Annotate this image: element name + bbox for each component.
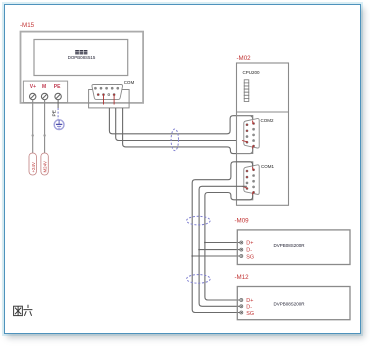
- cable marker (COM1 cable upper): [187, 216, 211, 225]
- svg-text:+24V: +24V: [31, 162, 36, 172]
- M09 terminal D+: [240, 241, 243, 244]
- svg-text:SG: SG: [246, 254, 254, 260]
- branch wire to M09 D-: [199, 249, 239, 251]
- svg-text:M24V: M24V: [43, 161, 48, 173]
- svg-text:-M09: -M09: [235, 218, 250, 225]
- cable marker (HMI-PLC cable): [171, 129, 178, 151]
- red wire stub pin4: [113, 96, 115, 105]
- svg-text:DOPB08S515: DOPB08S515: [68, 55, 96, 60]
- svg-text:PE: PE: [52, 110, 58, 116]
- COM2 red stub top: [252, 121, 254, 125]
- COM2 pins left col: [246, 124, 248, 143]
- wire A: HMI COM to PLC COM2 (upper): [109, 108, 252, 134]
- wire tag +24V: [29, 153, 36, 175]
- wire M down: [44, 100, 46, 153]
- wire V+ down: [32, 100, 34, 153]
- COM1 pins left col: [246, 170, 248, 189]
- svg-text:DVPB08S200R: DVPB08S200R: [274, 243, 306, 248]
- COM1 DB9 connector: [244, 165, 259, 195]
- COM2 DB9 connector: [244, 119, 259, 149]
- COM1 red wire B end: [242, 186, 247, 188]
- svg-text:M: M: [42, 84, 46, 90]
- junction SG: [191, 255, 193, 257]
- COM1 pin center dots: [247, 171, 255, 189]
- M12 terminal SG: [240, 311, 243, 314]
- DB9 pin center dots top: [95, 87, 118, 90]
- junction mark on M wire: [43, 134, 45, 136]
- caption 图六 (drawn glyphs): [14, 305, 33, 316]
- HMI U(-M15) outer box: [21, 32, 144, 103]
- svg-text:COM: COM: [124, 80, 135, 85]
- HMI title 触摸屏 (drawn glyph blocks): [75, 50, 87, 54]
- HMI display rectangle: [34, 40, 128, 76]
- svg-text:COM1: COM1: [261, 164, 274, 169]
- screw terminal M: [41, 93, 47, 99]
- M09 terminal SG: [240, 255, 243, 258]
- M12 terminal D-: [240, 305, 243, 308]
- HMI COM connector housing: [89, 90, 130, 108]
- svg-text:V+: V+: [30, 84, 36, 90]
- svg-text:CPU200: CPU200: [243, 70, 261, 75]
- PE earth symbol: [54, 120, 64, 130]
- cable marker (COM1 cable lower): [187, 275, 211, 284]
- PLC CPU module box: [237, 63, 289, 205]
- wire D: COM1 top to RS485 bus (SG): [192, 162, 252, 313]
- screw terminal PE: [55, 93, 61, 99]
- wire B: HMI COM to PLC COM2 (middle): [116, 108, 237, 141]
- branch wire to M09 SG: [192, 255, 239, 257]
- DB9 pins top row 5: [94, 87, 118, 89]
- terminal box on HMI: [23, 81, 67, 103]
- COM1 red stub bottom: [252, 192, 254, 195]
- COM2 pin center dots: [247, 124, 255, 142]
- CPU terminal strip: [244, 80, 249, 102]
- COM2 red stub bottom: [252, 146, 254, 149]
- screw terminal V+: [30, 93, 36, 99]
- svg-text:D-: D-: [246, 248, 252, 254]
- COM2 red wire B end: [242, 141, 247, 142]
- svg-text:DVPB08S200R: DVPB08S200R: [274, 302, 306, 307]
- HMI COM DB9 connector: [92, 85, 123, 100]
- svg-text:PE: PE: [54, 84, 61, 90]
- COM2 pins right col: [253, 123, 255, 147]
- junction D-: [198, 249, 200, 251]
- RS485 module M09 box: [237, 230, 350, 265]
- COM1 connector housing: [237, 162, 253, 200]
- junction mark on V+ wire: [32, 134, 34, 136]
- svg-text:-M02: -M02: [237, 55, 252, 62]
- wire F: COM1 bottom to RS485 bus (D+): [205, 193, 253, 301]
- CPU section divider: [237, 111, 289, 113]
- red pin dots on HMI DB9: [97, 94, 115, 96]
- svg-text:-M12: -M12: [235, 274, 250, 281]
- svg-text:D+: D+: [246, 241, 253, 247]
- DB9 pins bottom row 4: [97, 94, 115, 96]
- wire E: COM1 middle to RS485 bus (D-): [199, 186, 247, 306]
- PE wire down: [57, 100, 59, 108]
- wire C: HMI COM to PLC COM2 (lower): [123, 108, 253, 154]
- COM1 red pin dots: [246, 169, 254, 193]
- M09 terminal D-: [240, 248, 243, 251]
- COM1 pins right col: [253, 169, 255, 193]
- svg-text:D+: D+: [246, 298, 253, 304]
- COM2 red pin dots: [246, 123, 254, 147]
- red wire stub pin2: [103, 96, 105, 105]
- svg-text:COM2: COM2: [261, 118, 274, 123]
- COM2 connector housing: [237, 116, 253, 154]
- svg-text:D-: D-: [246, 304, 252, 310]
- M12 terminal D+: [240, 299, 243, 302]
- branch wire to M09 D+: [205, 242, 240, 244]
- svg-text:-M15: -M15: [20, 22, 35, 29]
- junction D+: [204, 242, 206, 244]
- wire tag M24V: [41, 153, 48, 175]
- RS485 module M12 box: [237, 287, 350, 320]
- svg-text:SG: SG: [246, 311, 254, 317]
- COM1 red stub top: [252, 167, 254, 171]
